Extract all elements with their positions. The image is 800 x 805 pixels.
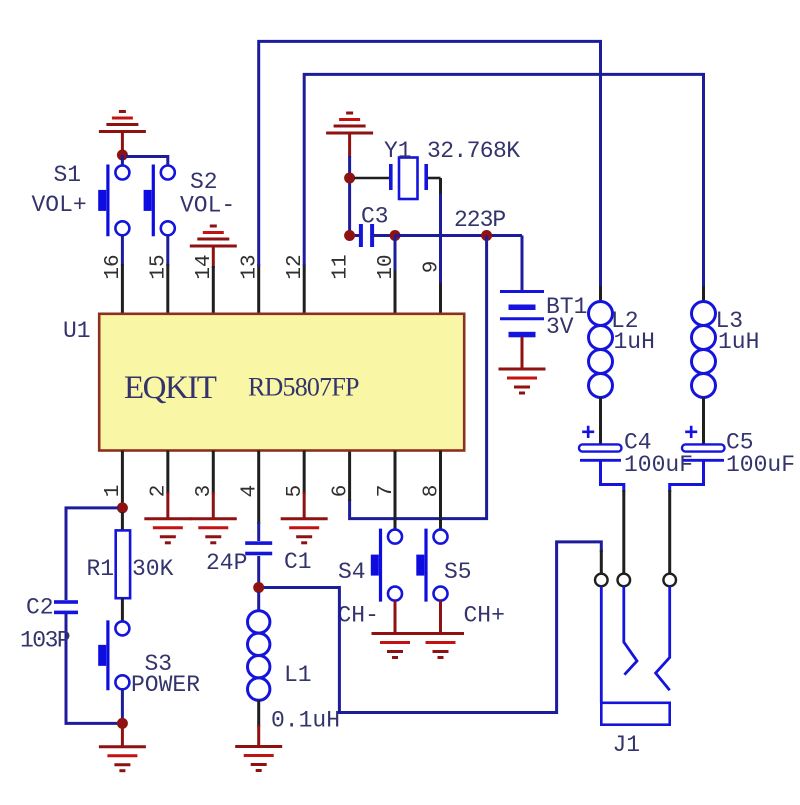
svg-text:103P: 103P bbox=[20, 628, 70, 654]
svg-text:10: 10 bbox=[375, 254, 398, 279]
svg-text:C3: C3 bbox=[361, 204, 389, 230]
svg-text:9: 9 bbox=[420, 261, 443, 274]
svg-text:15: 15 bbox=[148, 254, 171, 279]
svg-text:S4: S4 bbox=[338, 559, 366, 585]
svg-text:100uF: 100uF bbox=[624, 452, 693, 478]
svg-text:R1: R1 bbox=[87, 556, 115, 582]
svg-text:C1: C1 bbox=[284, 549, 312, 575]
svg-text:30K: 30K bbox=[132, 556, 174, 582]
svg-text:EQKIT: EQKIT bbox=[124, 370, 217, 406]
svg-text:11: 11 bbox=[329, 254, 352, 279]
svg-text:CH+: CH+ bbox=[464, 603, 505, 629]
svg-text:16: 16 bbox=[102, 254, 125, 279]
svg-text:14: 14 bbox=[193, 254, 216, 279]
svg-text:S5: S5 bbox=[444, 559, 472, 585]
svg-text:1uH: 1uH bbox=[718, 329, 759, 355]
svg-text:6: 6 bbox=[329, 485, 352, 498]
svg-text:1uH: 1uH bbox=[614, 329, 655, 355]
svg-text:223P: 223P bbox=[454, 207, 505, 233]
svg-text:0.1uH: 0.1uH bbox=[271, 708, 340, 734]
svg-text:12: 12 bbox=[284, 254, 307, 279]
svg-text:S1: S1 bbox=[54, 162, 82, 188]
svg-text:VOL+: VOL+ bbox=[32, 192, 87, 218]
svg-text:C2: C2 bbox=[26, 595, 54, 621]
svg-text:J1: J1 bbox=[613, 732, 641, 758]
svg-text:Y1: Y1 bbox=[384, 138, 412, 164]
svg-text:S2: S2 bbox=[190, 169, 218, 195]
svg-text:VOL-: VOL- bbox=[180, 193, 235, 219]
svg-text:POWER: POWER bbox=[131, 672, 200, 698]
svg-text:13: 13 bbox=[239, 254, 262, 279]
svg-text:RD5807FP: RD5807FP bbox=[248, 373, 359, 402]
svg-text:L1: L1 bbox=[284, 662, 312, 688]
svg-text:U1: U1 bbox=[63, 318, 91, 344]
svg-text:CH-: CH- bbox=[338, 603, 379, 629]
svg-text:100uF: 100uF bbox=[726, 452, 795, 478]
svg-text:32.768K: 32.768K bbox=[427, 138, 520, 164]
svg-text:3V: 3V bbox=[546, 314, 574, 340]
svg-text:24P: 24P bbox=[206, 550, 247, 576]
